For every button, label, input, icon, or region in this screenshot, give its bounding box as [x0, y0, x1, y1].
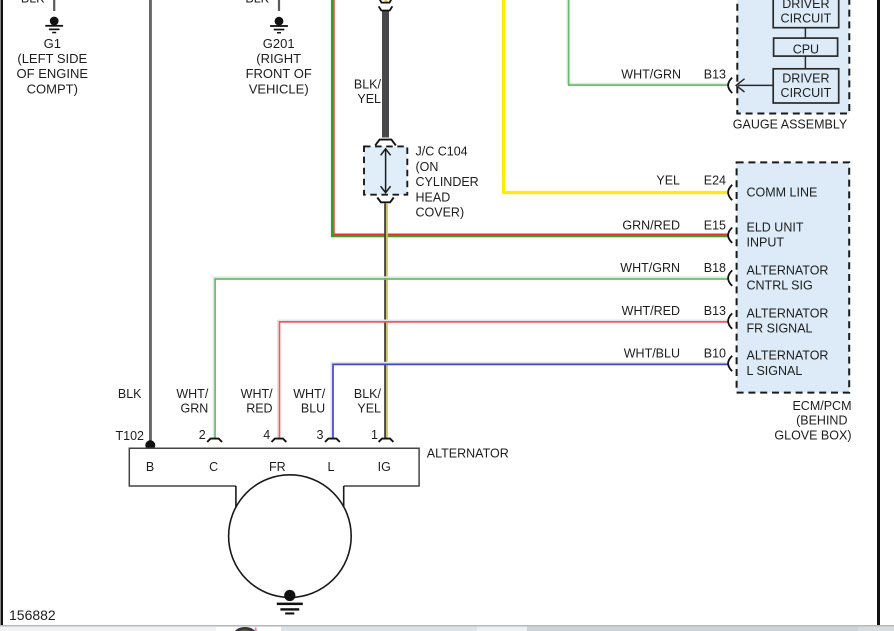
svg-text:GAUGE ASSEMBLY: GAUGE ASSEMBLY	[733, 117, 848, 131]
svg-text:BLK: BLK	[245, 0, 269, 6]
connector below J/C C104	[377, 198, 393, 203]
svg-text:2: 2	[199, 428, 206, 442]
svg-text:FRONT OF: FRONT OF	[246, 66, 312, 81]
svg-text:T102: T102	[116, 429, 145, 443]
gauge assembly dashed box	[737, 0, 849, 114]
svg-text:BLK: BLK	[118, 387, 142, 401]
svg-text:BLK: BLK	[21, 0, 45, 6]
svg-text:G1: G1	[44, 36, 61, 51]
page right border	[877, 0, 880, 627]
svg-text:ALTERNATOR: ALTERNATOR	[747, 264, 829, 278]
svg-text:COMM LINE: COMM LINE	[747, 185, 818, 199]
svg-text:(LEFT SIDE: (LEFT SIDE	[17, 51, 87, 66]
ground G201	[270, 17, 288, 34]
svg-text:YEL: YEL	[357, 402, 381, 416]
wire box-to-circle left	[235, 486, 237, 507]
connector B10	[728, 356, 732, 371]
svg-text:G201: G201	[263, 36, 295, 51]
svg-text:ALTERNATOR: ALTERNATOR	[747, 306, 829, 320]
svg-text:YEL: YEL	[357, 92, 381, 106]
bottom bar blue tab strip	[281, 627, 894, 631]
svg-text:ECM/PCM: ECM/PCM	[792, 399, 851, 413]
svg-text:CIRCUIT: CIRCUIT	[781, 86, 832, 100]
svg-text:WHT/RED: WHT/RED	[622, 304, 680, 318]
svg-text:GRN/RED: GRN/RED	[622, 218, 680, 232]
CPU box	[774, 38, 838, 56]
label J/C C104 (ON CYLINDER HEAD COVER)	[416, 145, 479, 220]
svg-text:BLK/: BLK/	[354, 387, 382, 401]
wire arrow from driver circuit to connector B13	[736, 79, 773, 92]
svg-text:ALTERNATOR: ALTERNATOR	[747, 349, 829, 363]
svg-text:(ON: (ON	[416, 160, 439, 174]
svg-text:WHT/GRN: WHT/GRN	[620, 261, 680, 275]
page left border	[1, 0, 4, 625]
connector E24	[728, 185, 732, 200]
svg-text:BLK/: BLK/	[354, 78, 382, 92]
connector B13 (ECM)	[728, 313, 732, 328]
svg-text:B13: B13	[704, 304, 726, 318]
svg-text:VEHICLE): VEHICLE)	[249, 81, 309, 96]
svg-text:(BEHIND: (BEHIND	[796, 414, 847, 428]
svg-text:GRN: GRN	[181, 402, 209, 416]
svg-text:J/C C104: J/C C104	[416, 145, 468, 159]
wire BLK stub to G201	[278, 0, 280, 11]
wire WHT/GRN from ECM B18 to pin 2	[214, 277, 728, 438]
svg-text:DRIVER: DRIVER	[782, 0, 829, 11]
wire box-to-circle right	[343, 486, 345, 507]
svg-text:1: 1	[371, 428, 378, 442]
label BLK/YEL (thick wire)	[354, 78, 382, 107]
label G1 (LEFT SIDE OF ENGINE COMPT)	[17, 36, 89, 97]
svg-text:IG: IG	[378, 460, 391, 474]
connector B13 (gauge)	[728, 78, 732, 93]
connector E15	[728, 228, 732, 243]
svg-text:CPU: CPU	[793, 42, 819, 56]
wire YEL vertical+horizontal to E24	[504, 0, 728, 193]
wire inside gauge (CPU-box2)	[804, 56, 806, 69]
label BLK/YEL (pin 1 wire)	[354, 387, 382, 416]
pin 4 connector	[272, 439, 287, 442]
svg-text:B18: B18	[704, 261, 726, 275]
svg-text:WHT/GRN: WHT/GRN	[621, 68, 681, 82]
wire BLK/YEL thin from J/C to IG pin 1	[384, 203, 386, 438]
svg-text:DRIVER: DRIVER	[782, 71, 829, 85]
svg-text:E15: E15	[704, 218, 726, 232]
svg-text:ELD UNIT: ELD UNIT	[747, 221, 804, 235]
svg-text:WHT/: WHT/	[176, 387, 208, 401]
svg-text:ALTERNATOR: ALTERNATOR	[427, 446, 509, 460]
double-headed arrow inside J/C C104	[381, 149, 391, 193]
label ECM/PCM (BEHIND GLOVE BOX)	[774, 399, 851, 443]
ground (alternator case)	[277, 590, 303, 615]
svg-text:OF ENGINE: OF ENGINE	[17, 66, 89, 81]
wire WHT/BLU from ECM B10 to pin 3	[331, 363, 727, 439]
svg-text:3: 3	[317, 428, 324, 442]
label WHT/RED (pin 4 wire)	[241, 387, 273, 416]
svg-text:L SIGNAL: L SIGNAL	[747, 364, 803, 378]
connector (top, female half)	[379, 0, 392, 3]
wire inside gauge (box1-CPU)	[804, 28, 806, 38]
junction connector J/C C104 box	[364, 146, 407, 194]
svg-text:FR SIGNAL: FR SIGNAL	[747, 322, 813, 336]
svg-text:COMPT): COMPT)	[27, 81, 78, 96]
alternator U1 box	[129, 448, 419, 486]
ground G1	[45, 17, 63, 34]
svg-text:WHT/: WHT/	[241, 387, 273, 401]
pin 2 connector	[207, 439, 222, 442]
wire BLK stub to G1	[53, 0, 55, 11]
wire WHT/GRN vertical+horizontal to gauge B13	[567, 0, 727, 84]
svg-text:GLOVE BOX): GLOVE BOX)	[774, 429, 851, 443]
wire BLK/YEL thick from connector to J/C C104	[385, 0, 388, 3]
svg-text:YEL: YEL	[656, 173, 680, 187]
svg-text:4: 4	[263, 428, 270, 442]
svg-text:E24: E24	[704, 173, 726, 187]
window bottom border line	[0, 625, 894, 627]
label G201 (RIGHT FRONT OF VEHICLE)	[246, 36, 312, 97]
node T102 splice dot	[145, 440, 155, 450]
label WHT/GRN (pin 2 wire)	[176, 387, 208, 416]
driver circuit box (top)	[773, 0, 839, 28]
wire BLK vertical to T102/B	[149, 0, 152, 446]
svg-text:(RIGHT: (RIGHT	[256, 51, 301, 66]
pin 1 connector	[379, 439, 394, 442]
svg-text:BLU: BLU	[301, 402, 325, 416]
connector above J/C C104	[375, 140, 396, 146]
bottom bar left	[0, 627, 216, 631]
wire WHT/RED from ECM B13 to pin 4	[278, 320, 728, 438]
svg-text:B10: B10	[704, 347, 726, 361]
svg-text:CIRCUIT: CIRCUIT	[781, 12, 832, 26]
alternator circle	[229, 475, 352, 598]
svg-text:156882: 156882	[9, 607, 56, 623]
svg-text:CNTRL SIG: CNTRL SIG	[747, 279, 813, 293]
ECM/PCM dashed box	[737, 162, 850, 392]
svg-text:HEAD: HEAD	[416, 190, 451, 204]
connector (top, male half)	[379, 6, 393, 10]
svg-text:RED: RED	[246, 402, 272, 416]
pin 3 connector	[325, 439, 340, 442]
svg-text:C: C	[209, 460, 218, 474]
label WHT/BLU (pin 3 wire)	[293, 387, 325, 416]
svg-text:CYLINDER: CYLINDER	[416, 175, 479, 189]
driver circuit box (bottom)	[773, 69, 839, 103]
svg-text:COVER): COVER)	[416, 206, 465, 220]
svg-text:B13: B13	[704, 68, 726, 82]
svg-text:WHT/: WHT/	[293, 387, 325, 401]
bottom bar favicon	[234, 627, 256, 631]
connector B18	[728, 270, 732, 285]
svg-text:L: L	[328, 460, 335, 474]
svg-text:FR: FR	[269, 460, 286, 474]
svg-text:WHT/BLU: WHT/BLU	[624, 347, 680, 361]
svg-text:B: B	[146, 460, 154, 474]
svg-text:INPUT: INPUT	[747, 236, 785, 250]
wire GRN/RED vertical+horizontal to E15	[332, 0, 728, 236]
terminal labels B C FR L IG	[146, 460, 391, 474]
